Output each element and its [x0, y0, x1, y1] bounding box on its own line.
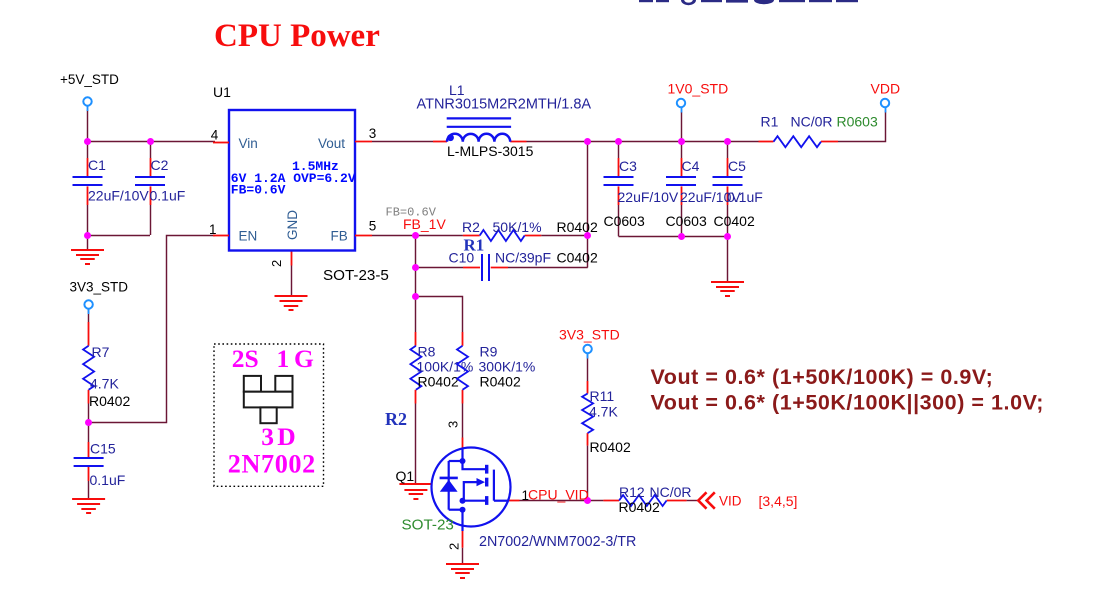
- wire U1 pin3 to L1: [372, 141, 447, 143]
- net label FB=0.6V: [386, 206, 437, 220]
- svg-text:2: 2: [269, 260, 284, 267]
- capacitor C3: [604, 158, 679, 229]
- U1 pin name GND: [285, 210, 300, 240]
- svg-text:1: 1: [277, 344, 290, 373]
- U1 pin name Vout: [318, 136, 345, 151]
- capacitor C2: [135, 157, 185, 204]
- logo remnant (cropped) at top edge: [639, 0, 858, 5]
- wire C1/C2 ground bus: [88, 235, 151, 249]
- svg-text:NC/0R: NC/0R: [791, 114, 833, 130]
- svg-text:22uF/10V: 22uF/10V: [618, 189, 679, 205]
- wire U1 pin2 to ground: [291, 251, 293, 296]
- wire R9 to Q1 drain: [462, 390, 464, 450]
- svg-text:50K/1%: 50K/1%: [493, 219, 542, 235]
- U1 value 6V 1.2A OVP=6.2V: [231, 171, 356, 186]
- junction at (618.5,141.7): [615, 138, 622, 145]
- svg-text:ATNR3015M2R2MTH/1.8A: ATNR3015M2R2MTH/1.8A: [417, 97, 592, 113]
- power symbol +5V_STD: [60, 72, 119, 111]
- annotation R1 (bold): [464, 236, 485, 255]
- svg-text:R2: R2: [385, 409, 407, 429]
- svg-text:R12: R12: [619, 484, 645, 500]
- wire R1 right to VDD: [821, 112, 886, 142]
- U1 pin 3 stub: [355, 126, 376, 142]
- capacitor C4: [666, 158, 742, 229]
- inductor L1: [417, 82, 592, 159]
- svg-text:3: 3: [446, 421, 461, 428]
- svg-text:2N7002/WNM7002-3/TR: 2N7002/WNM7002-3/TR: [479, 534, 636, 550]
- svg-text:C15: C15: [90, 441, 116, 457]
- svg-text:5: 5: [369, 218, 377, 233]
- svg-text:R2: R2: [462, 219, 480, 235]
- wire C4 branch: [681, 142, 683, 237]
- Q1 footprint SOT-23: [402, 517, 454, 534]
- Q1 pin 3 label: [446, 421, 461, 428]
- net label CPU_VID: [528, 487, 589, 503]
- wire C1 branch: [87, 142, 89, 235]
- resistor R7: [83, 344, 130, 409]
- net label FB_1V: [403, 216, 446, 232]
- svg-text:Q1: Q1: [396, 468, 415, 484]
- wire EN net from 3V3 node: [89, 236, 216, 423]
- svg-text:FB=0.6V: FB=0.6V: [231, 183, 286, 198]
- svg-text:SOT-23: SOT-23: [402, 517, 454, 534]
- svg-text:2: 2: [232, 344, 245, 373]
- junction at (587.7,141.7): [584, 138, 591, 145]
- svg-text:C0603: C0603: [666, 213, 707, 229]
- svg-text:C2: C2: [151, 157, 169, 173]
- junction at (727.5,236.3): [724, 233, 731, 240]
- 2N7002 pinout label part: [228, 450, 316, 479]
- svg-text:C5: C5: [728, 158, 746, 174]
- 2N7002 pinout box border: [214, 344, 324, 486]
- svg-text:D: D: [277, 422, 295, 451]
- junction at (681,141.7): [678, 138, 685, 145]
- svg-text:R0402: R0402: [557, 219, 598, 235]
- svg-text:NC/0R: NC/0R: [650, 484, 692, 500]
- wire R12 stubs: [603, 500, 698, 502]
- svg-text:R0402: R0402: [89, 393, 130, 409]
- junction at (150,141.7): [147, 138, 154, 145]
- svg-text:1: 1: [209, 222, 217, 237]
- svg-text:FB: FB: [331, 229, 348, 244]
- title CPU Power: [214, 18, 380, 54]
- svg-text:R7: R7: [92, 344, 110, 360]
- wire R2 stubs: [463, 235, 588, 237]
- svg-text:[3,4,5]: [3,4,5]: [759, 493, 798, 509]
- U1 pin 1 stub: [209, 222, 229, 237]
- wire C15 to ground: [88, 467, 90, 499]
- wire FB node column: [415, 236, 417, 297]
- svg-text:FB_1V: FB_1V: [403, 216, 446, 232]
- annotation R2 (bold): [385, 409, 407, 429]
- wire node n1 vertical: [587, 142, 589, 268]
- off-page connector VID: [698, 492, 797, 509]
- svg-text:100K/1%: 100K/1%: [417, 359, 474, 375]
- svg-text:3: 3: [369, 126, 377, 141]
- svg-text:S: S: [245, 344, 259, 373]
- svg-text:G: G: [294, 344, 314, 373]
- Q1 part number: [479, 534, 636, 550]
- junction at (587.6,500.5): [584, 497, 591, 504]
- U1 pin 4 stub: [211, 128, 229, 143]
- resistor R12: [619, 484, 692, 515]
- svg-text:L-MLPS-3015: L-MLPS-3015: [447, 143, 534, 159]
- svg-text:1V0_STD: 1V0_STD: [668, 81, 729, 97]
- Q1 refdes label: [396, 468, 415, 484]
- svg-text:C4: C4: [682, 158, 700, 174]
- wire C5 branch: [727, 142, 729, 237]
- resistor R8: [410, 344, 473, 390]
- junction at (727.5,141.7): [724, 138, 731, 145]
- op-amp U1 regulator box: [213, 84, 355, 251]
- wire R9 branch: [416, 297, 463, 346]
- svg-text:3: 3: [261, 422, 274, 451]
- U1 pin 2 stub: [269, 260, 284, 267]
- svg-text:EN: EN: [239, 229, 258, 244]
- junction at (587.7,235.5): [584, 232, 591, 239]
- U1 value 1.5MHz: [292, 159, 339, 174]
- svg-text:4.7K: 4.7K: [589, 404, 618, 420]
- power symbol 1V0_STD: [668, 81, 729, 113]
- wire node to C15: [88, 422, 90, 457]
- svg-text:R0603: R0603: [837, 114, 878, 130]
- resistor R11: [582, 388, 631, 455]
- 2N7002 pinout label 2S: [232, 344, 259, 373]
- U1 footprint label SOT-23-5: [323, 267, 389, 284]
- wire Q1 gate to CPU_VID: [509, 500, 604, 502]
- wire R1 left stub: [759, 141, 774, 143]
- resistor R9: [457, 344, 535, 390]
- svg-text:VDD: VDD: [871, 81, 901, 97]
- svg-text:R0402: R0402: [590, 439, 631, 455]
- svg-text:Vout = 0.6* (1+50K/100K) = 0.9: Vout = 0.6* (1+50K/100K) = 0.9V;: [651, 365, 994, 389]
- junction at (88.6,422): [85, 419, 92, 426]
- wire R8 column top: [415, 297, 417, 346]
- svg-text:0.1uF: 0.1uF: [150, 188, 186, 204]
- svg-text:VID: VID: [719, 494, 742, 509]
- junction at (87.5,235): [84, 232, 91, 239]
- U1 pin name FB: [331, 229, 348, 244]
- wire cap ground bus: [619, 236, 728, 281]
- svg-text:R9: R9: [480, 344, 498, 360]
- wire C10 row: [416, 267, 588, 269]
- resistor R1: [761, 114, 878, 148]
- U1 pin name EN: [239, 229, 258, 244]
- capacitor C5: [713, 158, 763, 229]
- svg-text:SOT-23-5: SOT-23-5: [323, 267, 389, 284]
- transistor Q1 (2N7002 MOSFET): [432, 448, 511, 532]
- svg-text:Vout = 0.6* (1+50K/100K||300): Vout = 0.6* (1+50K/100K||300) = 1.0V;: [651, 390, 1045, 414]
- svg-text:C0402: C0402: [714, 213, 755, 229]
- ground under Q1 source: [446, 564, 479, 578]
- ground under C1/C2: [71, 250, 104, 264]
- svg-text:C0402: C0402: [557, 250, 598, 266]
- U1 pin 5 stub: [355, 218, 376, 235]
- svg-text:CPU_VID: CPU_VID: [528, 487, 589, 503]
- svg-text:300K/1%: 300K/1%: [479, 359, 536, 375]
- 2N7002 pinout label 3D: [261, 422, 295, 451]
- U1 pin name Vin: [239, 136, 258, 151]
- svg-text:NC/39pF: NC/39pF: [495, 250, 551, 266]
- wire R8 to ground: [415, 390, 417, 484]
- svg-text:R1: R1: [464, 236, 485, 255]
- svg-text:3V3_STD: 3V3_STD: [559, 327, 620, 343]
- svg-text:22uF/10V: 22uF/10V: [88, 188, 149, 204]
- svg-text:C0603: C0603: [604, 213, 645, 229]
- wire Q1 source to ground: [462, 531, 464, 563]
- svg-text:Vin: Vin: [239, 136, 258, 151]
- svg-text:C1: C1: [88, 157, 106, 173]
- ground under U1 pin2: [275, 296, 308, 310]
- junction at (415.9,267.5): [412, 264, 419, 271]
- wire 1V0_STD drop: [681, 112, 683, 142]
- wire L1 to output rail: [510, 141, 758, 143]
- wire R11 to gate row: [587, 433, 589, 500]
- junction at (415.9,296.5): [412, 293, 419, 300]
- Q1 pin 2 label: [447, 543, 462, 550]
- 2N7002 pinout label 1G: [277, 344, 315, 373]
- wire FB pin5 to FB node: [372, 235, 463, 237]
- resistor R2: [462, 219, 598, 241]
- capacitor C1: [73, 157, 150, 204]
- wire C2 branch: [150, 142, 152, 235]
- formula line 1: [651, 365, 994, 389]
- wire +5V_STD vertical: [87, 110, 89, 142]
- svg-text:2: 2: [447, 543, 462, 550]
- junction at (87.5,141.7): [84, 138, 91, 145]
- svg-text:4: 4: [211, 128, 219, 143]
- svg-text:3V3_STD: 3V3_STD: [70, 279, 129, 294]
- svg-text:0.1uF: 0.1uF: [90, 472, 126, 488]
- svg-text:+5V_STD: +5V_STD: [60, 72, 119, 87]
- svg-text:U1: U1: [213, 84, 231, 100]
- wire +5V rail to U1 pin4: [88, 141, 216, 143]
- svg-text:2N7002: 2N7002: [228, 450, 316, 479]
- ground under C3/C4/C5: [711, 282, 744, 296]
- ground under C15: [72, 499, 105, 513]
- wire C3 branch: [618, 142, 620, 237]
- wire R7 to node: [88, 390, 90, 422]
- U1 value FB=0.6V: [231, 183, 286, 198]
- svg-text:R0402: R0402: [619, 499, 660, 515]
- svg-text:C3: C3: [619, 158, 637, 174]
- power symbol 3V3_STD (mid): [559, 327, 620, 359]
- svg-text:4.7K: 4.7K: [90, 376, 119, 392]
- svg-text:R11: R11: [590, 388, 615, 404]
- ground under R8: [399, 484, 432, 499]
- svg-text:R1: R1: [761, 114, 779, 130]
- svg-text:GND: GND: [285, 210, 300, 240]
- power symbol 3V3_STD (left): [70, 279, 129, 314]
- svg-text:R8: R8: [418, 344, 436, 360]
- wire 3V3_STD to R7: [88, 310, 90, 346]
- capacitor C15: [74, 441, 126, 489]
- svg-text:R0402: R0402: [480, 374, 521, 390]
- power symbol VDD: [871, 81, 901, 113]
- formula line 2: [651, 390, 1045, 414]
- svg-text:R0402: R0402: [418, 374, 459, 390]
- Q1 pin 1 label: [522, 488, 530, 503]
- capacitor C10: [449, 250, 598, 282]
- svg-text:CPU Power: CPU Power: [214, 18, 380, 54]
- junction at (681,236.3): [678, 233, 685, 240]
- svg-text:0.1uF: 0.1uF: [727, 189, 763, 205]
- 2N7002 package drawing: [244, 376, 293, 423]
- wire 3V3 mid to R11: [587, 354, 589, 394]
- junction at (415.9,235.5): [412, 232, 419, 239]
- svg-text:Vout: Vout: [318, 136, 345, 151]
